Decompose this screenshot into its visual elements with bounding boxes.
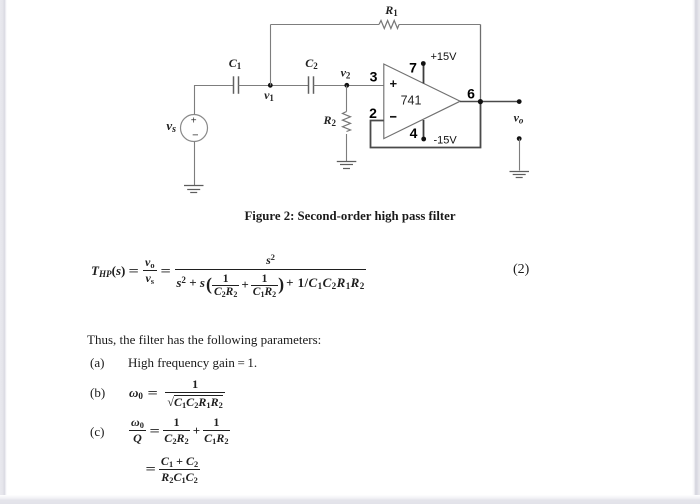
svg-text:v2: v2 — [341, 66, 351, 81]
wire feedback loop to pin 2 — [371, 102, 481, 148]
equation (2) — [91, 263, 137, 279]
ground (vo) — [510, 172, 530, 178]
op-amp U1 (741) — [384, 64, 460, 139]
voltage source vs — [181, 115, 208, 142]
svg-text:+: + — [390, 76, 398, 91]
svg-text:+: + — [191, 115, 197, 126]
item a — [90, 355, 104, 371]
svg-text:4: 4 — [410, 125, 418, 141]
wire output — [460, 101, 519, 103]
svg-text:6: 6 — [467, 86, 475, 102]
op-amp - input mark — [390, 116, 396, 118]
wire top left to R1 — [271, 24, 380, 26]
node v1 — [268, 83, 273, 88]
+15V supply line — [421, 61, 426, 83]
node output junction — [478, 99, 483, 104]
item c second line — [147, 452, 201, 486]
svg-text:R2: R2 — [322, 113, 336, 128]
capacitor C1 — [234, 76, 239, 94]
svg-text:C1: C1 — [229, 56, 242, 71]
wire riser v1 to top — [270, 25, 272, 86]
svg-text:C2: C2 — [305, 56, 318, 71]
paragraph — [87, 332, 321, 348]
svg-text:7: 7 — [409, 60, 417, 76]
wire R1 to right vertical — [399, 24, 481, 26]
item b — [90, 385, 105, 401]
node output end — [517, 99, 522, 104]
svg-text:-15V: -15V — [434, 135, 458, 147]
-15V supply line — [421, 120, 426, 141]
figure caption — [0, 209, 700, 224]
svg-text:3: 3 — [370, 69, 378, 85]
svg-text:+15V: +15V — [431, 51, 458, 63]
svg-text:R1: R1 — [384, 3, 398, 18]
page edge shading — [0, 0, 7, 497]
wire right vertical feedback — [480, 25, 482, 102]
node vo ground tap — [517, 136, 522, 141]
svg-text:−: − — [192, 130, 198, 142]
item c — [90, 424, 104, 440]
node v2 — [344, 83, 349, 88]
ground (R2) — [337, 162, 357, 169]
svg-text:2: 2 — [369, 105, 377, 121]
wire vs top to main line — [195, 86, 234, 115]
wire vs bottom to ground — [194, 142, 196, 186]
capacitor C2 — [309, 76, 314, 94]
wire C2 to op-amp pin 3 — [314, 85, 384, 87]
circuit schematic SVG — [0, 0, 700, 232]
resistor R2 — [343, 86, 351, 162]
svg-text:vo: vo — [514, 111, 524, 126]
ground (vs) — [184, 186, 204, 193]
wire C1 to C2 — [239, 85, 309, 87]
svg-text:741: 741 — [401, 94, 422, 108]
svg-text:v1: v1 — [264, 88, 274, 103]
wire vo to ground — [519, 139, 521, 171]
svg-text:vs: vs — [166, 118, 176, 135]
resistor R1 — [379, 21, 399, 29]
